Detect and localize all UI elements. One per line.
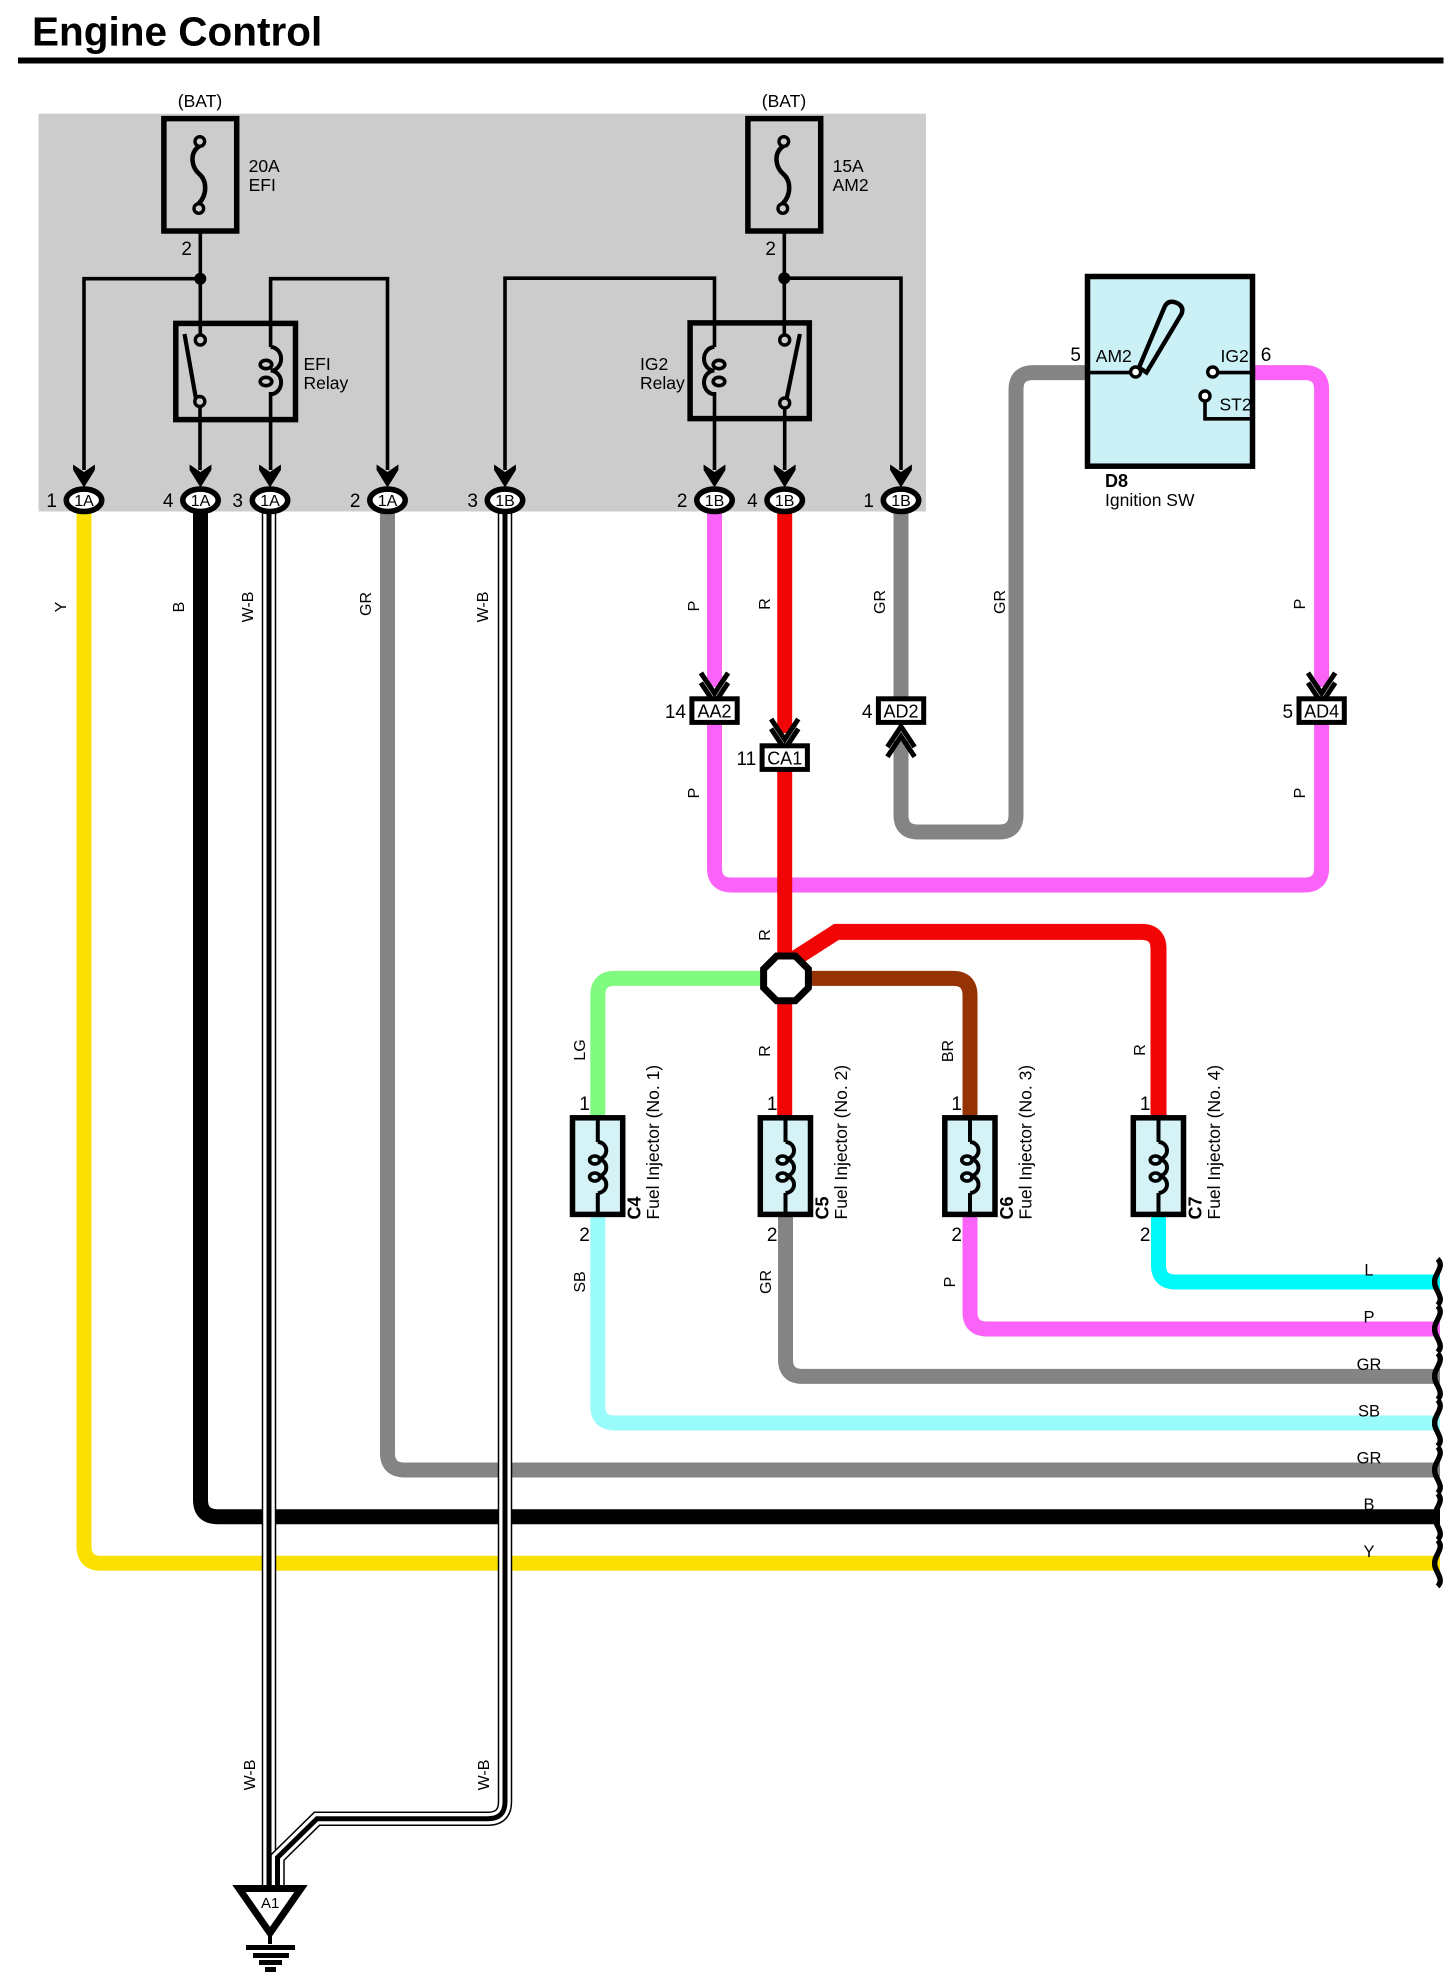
EFI relay coil <box>271 347 282 394</box>
svg-text:1: 1 <box>863 491 874 512</box>
svg-text:1B: 1B <box>705 493 725 510</box>
junction node at AM2 fuse <box>778 272 790 284</box>
svg-text:GR: GR <box>1357 1356 1382 1374</box>
wire fuse EFI to junction and relay switch <box>199 231 203 335</box>
connector 2 1A <box>370 489 405 511</box>
svg-text:C4: C4 <box>625 1196 645 1219</box>
svg-text:EFI: EFI <box>304 354 331 374</box>
wire W-B pin3 1B to ground A1 <box>278 508 506 1887</box>
svg-text:1: 1 <box>46 491 57 512</box>
wire Y yellow pin1 1A to bottom bus <box>84 508 1440 1563</box>
svg-text:P: P <box>1292 788 1309 799</box>
svg-text:AM2: AM2 <box>1096 346 1132 366</box>
svg-text:2: 2 <box>181 239 192 260</box>
svg-text:P: P <box>686 601 703 612</box>
svg-text:1: 1 <box>951 1094 962 1115</box>
svg-text:D8: D8 <box>1105 471 1128 491</box>
connector 4 1A <box>183 489 218 511</box>
title underline <box>18 58 1444 64</box>
svg-text:GR: GR <box>358 592 375 616</box>
connector 5 AD4 <box>1299 699 1344 723</box>
ignition ST2 contact <box>1200 391 1210 401</box>
svg-text:B: B <box>171 602 188 613</box>
svg-text:1B: 1B <box>891 493 911 510</box>
svg-text:20A: 20A <box>249 156 280 176</box>
wire SB injector No1 to bottom bus <box>598 1212 1440 1423</box>
IG2 relay switch <box>787 334 800 399</box>
svg-text:2: 2 <box>765 239 776 260</box>
wire break brace <box>1435 1400 1441 1446</box>
svg-text:P: P <box>1292 599 1309 610</box>
arrow into connector <box>377 465 399 488</box>
wire junction 2 to pin 1 1B <box>784 278 901 470</box>
wire B black pin4 1A to bottom bus <box>201 508 1441 1517</box>
svg-text:Relay: Relay <box>640 373 685 393</box>
junction node at EFI fuse <box>194 273 206 285</box>
connector 3 1A <box>252 489 287 511</box>
svg-text:1: 1 <box>579 1094 590 1115</box>
wire P pink AA2 to AD4 <box>715 723 1322 885</box>
wire IG2 switch to pin 4 1B <box>783 407 787 470</box>
svg-text:R: R <box>1132 1044 1149 1056</box>
svg-text:P: P <box>942 1277 959 1288</box>
svg-text:W-B: W-B <box>476 1760 493 1791</box>
svg-text:W-B: W-B <box>240 592 257 623</box>
wire GR gray pin1 1B to AD2 <box>894 508 909 699</box>
svg-text:AA2: AA2 <box>697 701 731 721</box>
svg-text:SB: SB <box>572 1271 589 1292</box>
wire break brace <box>1435 1447 1441 1493</box>
svg-text:R: R <box>757 929 774 941</box>
wire IG2 coil top to pin 3 1B <box>505 278 715 470</box>
svg-text:BR: BR <box>940 1040 957 1062</box>
svg-text:AD2: AD2 <box>883 701 918 721</box>
svg-text:Fuel Injector (No. 3): Fuel Injector (No. 3) <box>1016 1065 1036 1220</box>
svg-text:L: L <box>1364 1262 1373 1280</box>
svg-text:ST2: ST2 <box>1220 395 1252 415</box>
svg-text:EFI: EFI <box>249 175 276 195</box>
svg-text:B: B <box>1363 1496 1374 1514</box>
svg-text:5: 5 <box>1070 345 1081 366</box>
arrow into connector <box>890 465 912 488</box>
wire break brace <box>1435 1353 1441 1399</box>
svg-text:15A: 15A <box>833 156 864 176</box>
junction-block background (gray) <box>39 114 927 512</box>
arrow into connector <box>259 465 281 488</box>
svg-text:4: 4 <box>163 491 174 512</box>
svg-text:Ignition SW: Ignition SW <box>1105 490 1195 510</box>
svg-text:W-B: W-B <box>242 1760 259 1791</box>
svg-text:2: 2 <box>767 1225 778 1246</box>
relay EFI box <box>176 323 296 419</box>
svg-text:2: 2 <box>350 491 361 512</box>
wire GR gray ignition AM2 to AD2 <box>901 373 1088 832</box>
ignition IG2 contact line <box>1217 371 1253 375</box>
wire fuse AM2 to junction and IG2 switch <box>782 231 786 335</box>
wire break brace <box>1435 1306 1441 1352</box>
svg-text:3: 3 <box>467 491 478 512</box>
wire BR brown octagon to injector No3 <box>808 978 970 1118</box>
wire P injector No3 to bottom bus <box>970 1212 1440 1329</box>
svg-text:P: P <box>1363 1309 1374 1327</box>
wire break brace <box>1435 1540 1441 1586</box>
ignition AM2 contact line <box>1088 371 1132 375</box>
svg-text:A1: A1 <box>261 1895 279 1912</box>
svg-text:Relay: Relay <box>304 373 349 393</box>
arrow into connector <box>774 465 796 488</box>
wire EFI coil top to pin 2 1A <box>271 279 388 470</box>
svg-text:C5: C5 <box>813 1196 833 1219</box>
arrow into connector <box>73 465 95 488</box>
svg-text:SB: SB <box>1358 1403 1380 1421</box>
svg-text:1B: 1B <box>775 493 795 510</box>
svg-text:2: 2 <box>579 1225 590 1246</box>
svg-text:IG2: IG2 <box>1221 346 1249 366</box>
svg-text:AM2: AM2 <box>833 175 869 195</box>
relay IG2 box <box>690 323 809 419</box>
wire L injector No4 to bottom bus <box>1159 1212 1441 1282</box>
svg-text:CA1: CA1 <box>767 748 802 768</box>
wire EFI coil bottom to pin 3 1A <box>269 392 273 470</box>
svg-text:GR: GR <box>992 590 1009 614</box>
junction node octagon <box>764 956 809 1001</box>
svg-text:4: 4 <box>747 491 758 512</box>
svg-text:R: R <box>757 598 774 610</box>
arrow into connector <box>704 465 726 488</box>
svg-text:Y: Y <box>53 601 70 612</box>
svg-text:LG: LG <box>572 1039 589 1060</box>
wire R red CA1 to junction octagon and injector No2 <box>777 770 792 1119</box>
connector 1 1B <box>883 489 918 511</box>
svg-text:6: 6 <box>1261 345 1272 366</box>
svg-text:C7: C7 <box>1186 1196 1206 1219</box>
EFI relay switch <box>185 334 197 399</box>
svg-text:AD4: AD4 <box>1304 701 1339 721</box>
connector 1 1A <box>66 489 101 511</box>
wire P pink ignition IG2 to AD4 <box>1253 373 1322 687</box>
svg-text:Y: Y <box>1363 1543 1374 1561</box>
connector 11 CA1 <box>762 746 807 770</box>
svg-text:Fuel Injector (No. 4): Fuel Injector (No. 4) <box>1204 1065 1224 1220</box>
arrow into AD2 <box>887 727 914 757</box>
svg-text:R: R <box>757 1045 774 1057</box>
arrow into AA2 <box>701 673 728 703</box>
svg-text:Fuel Injector (No. 1): Fuel Injector (No. 1) <box>643 1065 663 1220</box>
ignition ST2 stub <box>1205 400 1253 419</box>
svg-text:1A: 1A <box>74 493 94 510</box>
ignition IG2 contact <box>1208 367 1218 377</box>
svg-text:C6: C6 <box>997 1196 1017 1219</box>
svg-text:5: 5 <box>1283 702 1294 723</box>
wire W-B pin3 1A to ground A1 <box>262 508 277 1887</box>
ignition AM2 contact <box>1131 367 1141 377</box>
connector 2 1B <box>697 489 732 511</box>
wire EFI relay switch to pin 4 1A <box>198 406 202 470</box>
ignition switch D8 box <box>1088 277 1253 467</box>
fuel injector C6 Fuel Injector (No. 3) <box>945 1118 995 1215</box>
connector 3 1B <box>487 489 522 511</box>
connector 4 1B <box>767 489 802 511</box>
arrow into CA1 <box>771 719 798 749</box>
connector 14 AA2 <box>692 699 737 723</box>
svg-text:1A: 1A <box>378 493 398 510</box>
svg-text:1A: 1A <box>191 493 211 510</box>
svg-text:11: 11 <box>736 749 756 770</box>
wire LG light green octagon to injector No1 <box>598 978 764 1118</box>
wire P pink pin2 1B to AA2 <box>707 508 722 687</box>
svg-text:P: P <box>686 788 703 799</box>
wire GR gray pin2 1A to bottom bus <box>388 508 1441 1470</box>
IG2 relay coil <box>704 347 715 394</box>
svg-text:2: 2 <box>951 1225 962 1246</box>
fuel injector C5 Fuel Injector (No. 2) <box>760 1118 810 1215</box>
svg-text:1B: 1B <box>495 493 515 510</box>
svg-text:Fuel Injector (No. 2): Fuel Injector (No. 2) <box>831 1065 851 1220</box>
wire IG2 coil bottom to pin 2 1B <box>713 392 717 470</box>
wire junction to pin 1 1A <box>84 279 200 470</box>
svg-text:GR: GR <box>1357 1450 1382 1468</box>
svg-text:4: 4 <box>862 702 873 723</box>
ignition lever <box>1139 302 1182 373</box>
svg-text:W-B: W-B <box>475 592 492 623</box>
svg-text:(BAT): (BAT) <box>178 91 222 111</box>
svg-text:2: 2 <box>677 491 688 512</box>
svg-text:IG2: IG2 <box>640 354 668 374</box>
svg-text:14: 14 <box>665 702 687 723</box>
arrow into connector <box>190 465 212 488</box>
svg-text:1: 1 <box>767 1094 778 1115</box>
arrow into AD4 <box>1308 673 1335 703</box>
wire GR injector No2 to bottom bus <box>786 1212 1441 1376</box>
ground A1 <box>239 1889 301 1934</box>
svg-text:3: 3 <box>232 491 243 512</box>
svg-text:(BAT): (BAT) <box>762 91 806 111</box>
svg-text:1: 1 <box>1140 1094 1151 1115</box>
svg-text:GR: GR <box>872 590 889 614</box>
wire break brace <box>1435 1494 1441 1540</box>
fuel injector C7 Fuel Injector (No. 4) <box>1133 1118 1183 1215</box>
svg-text:2: 2 <box>1140 1225 1151 1246</box>
arrow into connector <box>494 465 516 488</box>
fuse 20A EFI <box>164 119 237 231</box>
wire R red pin4 1B to CA1 <box>777 508 792 733</box>
svg-text:Engine Control: Engine Control <box>32 9 322 55</box>
wire break brace <box>1435 1259 1441 1305</box>
wire R red octagon to injector No4 <box>788 932 1159 1118</box>
svg-text:1A: 1A <box>260 493 280 510</box>
connector 4 AD2 <box>878 699 923 723</box>
fuel injector C4 Fuel Injector (No. 1) <box>573 1118 623 1215</box>
svg-text:GR: GR <box>758 1270 775 1294</box>
fuse 15A AM2 <box>748 119 821 231</box>
